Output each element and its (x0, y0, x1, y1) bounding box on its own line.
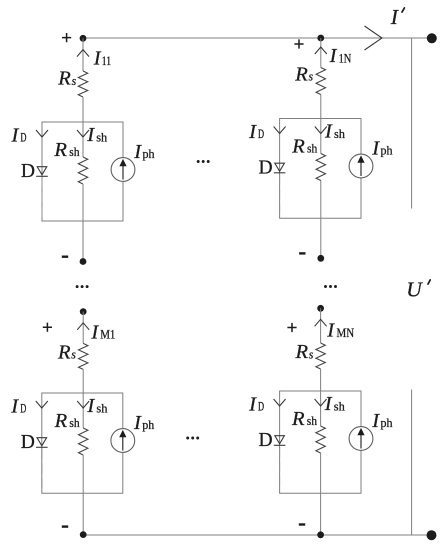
resistor Rs cell M1 (79, 343, 88, 369)
svg-text:D: D (258, 127, 264, 141)
svg-text:I: I (93, 48, 102, 70)
current source Iph cell M1 (111, 429, 135, 453)
resistor Rsh cell 11 (78, 157, 87, 184)
svg-text:ph: ph (381, 416, 394, 430)
svg-text:ph: ph (143, 147, 156, 161)
enclosure box cell M1 (42, 393, 123, 493)
diode D cell 11 (36, 167, 48, 177)
svg-text:I: I (90, 321, 99, 343)
svg-text:R: R (57, 341, 71, 363)
- polarity mark cell 1N (299, 252, 305, 254)
wire: top node MN down to Rs (320, 308, 322, 343)
node MN bottom (-) terminal dot (317, 531, 324, 538)
diode D cell MN (274, 436, 286, 446)
svg-text:sh: sh (334, 399, 346, 413)
svg-text:R: R (53, 139, 67, 161)
wire: box top to Rsh cell 11 (82, 122, 84, 157)
svg-text:D: D (20, 131, 26, 145)
wire: Rs to box cell MN (320, 369, 322, 391)
current arrow ID (down) cell 11 (36, 130, 48, 137)
svg-text:R: R (291, 408, 305, 430)
node MN top (+) terminal dot (317, 305, 324, 312)
svg-text:D: D (21, 161, 35, 182)
resistor Rs cell 11 (78, 71, 87, 97)
svg-text:I: I (326, 320, 335, 342)
+ polarity mark cell MN (287, 323, 296, 332)
svg-text:I: I (11, 124, 20, 146)
svg-text:sh: sh (96, 130, 108, 144)
svg-text:R: R (295, 341, 309, 363)
svg-text:I: I (371, 410, 380, 432)
wire: Rsh down to bottom node cell 11 (82, 184, 84, 262)
ellipsis between top cells (197, 160, 200, 163)
current arrow I11 (up) (77, 50, 89, 57)
svg-text:s: s (72, 74, 77, 88)
wire: right bus lower segment (411, 390, 413, 536)
wire: top bus (83, 37, 432, 39)
wire: top node 1N down to Rs (320, 38, 322, 68)
svg-text:M1: M1 (100, 328, 115, 342)
svg-text:MN: MN (337, 326, 355, 340)
svg-text:R: R (291, 135, 305, 157)
prime mark of I′ (402, 8, 404, 12)
current arrow IM1 (up) (77, 323, 89, 330)
current arrow IMN (up) (315, 319, 327, 326)
current arrow Ish (down) cell M1 (77, 401, 89, 408)
wire: Rs to box cell 1N (320, 95, 322, 119)
wire: Rs to box cell 11 (82, 97, 84, 122)
wire: top node 11 down to Rs (82, 38, 84, 71)
ellipsis below cell 11 (76, 285, 79, 288)
current source Iph cell MN (349, 427, 373, 451)
wire: right bus upper segment (411, 38, 413, 209)
svg-text:sh: sh (69, 145, 80, 159)
ellipsis below cell 1N (324, 285, 327, 288)
- polarity mark cell MN (299, 523, 305, 525)
svg-text:I: I (390, 5, 399, 29)
wire: top node M1 down to Rs (82, 312, 84, 344)
svg-text:I: I (329, 45, 338, 67)
node 1N top (+) terminal dot (317, 35, 324, 42)
wire: Rs to box cell M1 (82, 369, 84, 393)
resistor Rsh cell M1 (79, 428, 88, 455)
ellipsis between bottom cells (186, 437, 189, 440)
wire: box top to Rsh cell 1N (320, 119, 322, 154)
- polarity mark cell M1 (62, 525, 68, 527)
svg-text:D: D (259, 430, 273, 451)
svg-text:R: R (54, 410, 68, 432)
dashed diode branch below D cell 1N (279, 174, 281, 216)
resistor Rs cell MN (316, 343, 325, 369)
current arrow Ish (down) cell 1N (315, 127, 327, 134)
+ polarity mark cell 1N (294, 39, 303, 48)
current arrow I′ on top bus (365, 26, 383, 50)
wire: Rsh down to bottom node cell 1N (320, 181, 322, 259)
node 1N bottom (-) terminal dot (317, 255, 324, 262)
svg-text:D: D (258, 400, 264, 414)
svg-text:R: R (57, 68, 71, 90)
current arrow Ish (down) cell MN (315, 399, 327, 406)
prime mark of U′ (428, 280, 430, 284)
svg-text:s: s (309, 70, 314, 84)
svg-text:I: I (324, 393, 333, 415)
svg-text:U: U (406, 278, 423, 302)
node M1 bottom (-) terminal dot (80, 531, 87, 538)
svg-text:1N: 1N (339, 51, 352, 65)
svg-text:I: I (324, 121, 333, 143)
svg-text:ph: ph (142, 418, 155, 432)
svg-text:sh: sh (334, 127, 346, 141)
svg-text:I: I (133, 141, 142, 163)
resistor Rsh cell 1N (316, 154, 325, 181)
svg-text:D: D (21, 432, 35, 453)
current arrow ID (down) cell MN (274, 399, 286, 406)
node 11 bottom (-) terminal dot (80, 258, 87, 265)
dashed diode branch below D cell M1 (41, 449, 43, 491)
svg-text:D: D (259, 157, 273, 178)
svg-text:sh: sh (69, 416, 80, 430)
svg-text:I: I (248, 393, 257, 415)
svg-text:D: D (20, 402, 26, 416)
svg-text:I: I (86, 124, 95, 146)
dashed diode branch below D cell MN (279, 447, 281, 492)
wire: box top to Rsh cell M1 (82, 393, 84, 428)
terminal dot top right (427, 33, 437, 43)
svg-text:I: I (248, 121, 257, 143)
resistor Rs cell 1N (316, 68, 325, 95)
current source Iph cell 1N (349, 154, 373, 178)
svg-text:ph: ph (381, 144, 394, 158)
diode D cell 1N (274, 163, 286, 173)
svg-text:sh: sh (307, 414, 318, 428)
current arrow Ish (down) cell 11 (77, 130, 89, 137)
+ polarity mark cell 11 (62, 33, 71, 42)
wire: Rsh down to bottom node cell M1 (82, 455, 84, 535)
enclosure box cell 1N (280, 119, 361, 219)
diode D cell M1 (36, 438, 48, 448)
current source Iph cell 11 (111, 158, 135, 182)
wire: Rsh down to bottom node cell MN (320, 453, 322, 535)
enclosure box cell 11 (42, 122, 123, 221)
current arrow ID (down) cell 1N (274, 127, 286, 134)
svg-text:R: R (294, 63, 308, 85)
node 11 top (+) terminal dot (80, 35, 87, 42)
wire: box top to Rsh cell MN (320, 391, 322, 426)
current arrow ID (down) cell M1 (36, 401, 48, 408)
enclosure box cell MN (280, 391, 361, 493)
dashed diode branch below D cell 11 (41, 178, 43, 219)
svg-text:I: I (10, 395, 19, 417)
svg-text:sh: sh (307, 142, 318, 156)
- polarity mark cell 11 (62, 256, 68, 258)
wire: bottom bus (83, 534, 432, 536)
svg-text:sh: sh (96, 401, 108, 415)
svg-text:I: I (371, 137, 380, 159)
+ polarity mark cell M1 (43, 323, 52, 332)
node M1 top (+) terminal dot (80, 308, 87, 315)
svg-text:s: s (309, 347, 314, 361)
svg-text:11: 11 (102, 54, 111, 68)
current arrow I1N (up) (315, 47, 327, 54)
terminal dot bottom right (427, 530, 437, 540)
svg-text:I: I (86, 395, 95, 417)
svg-text:s: s (71, 348, 76, 362)
svg-text:I: I (133, 412, 142, 434)
resistor Rsh cell MN (316, 426, 325, 453)
